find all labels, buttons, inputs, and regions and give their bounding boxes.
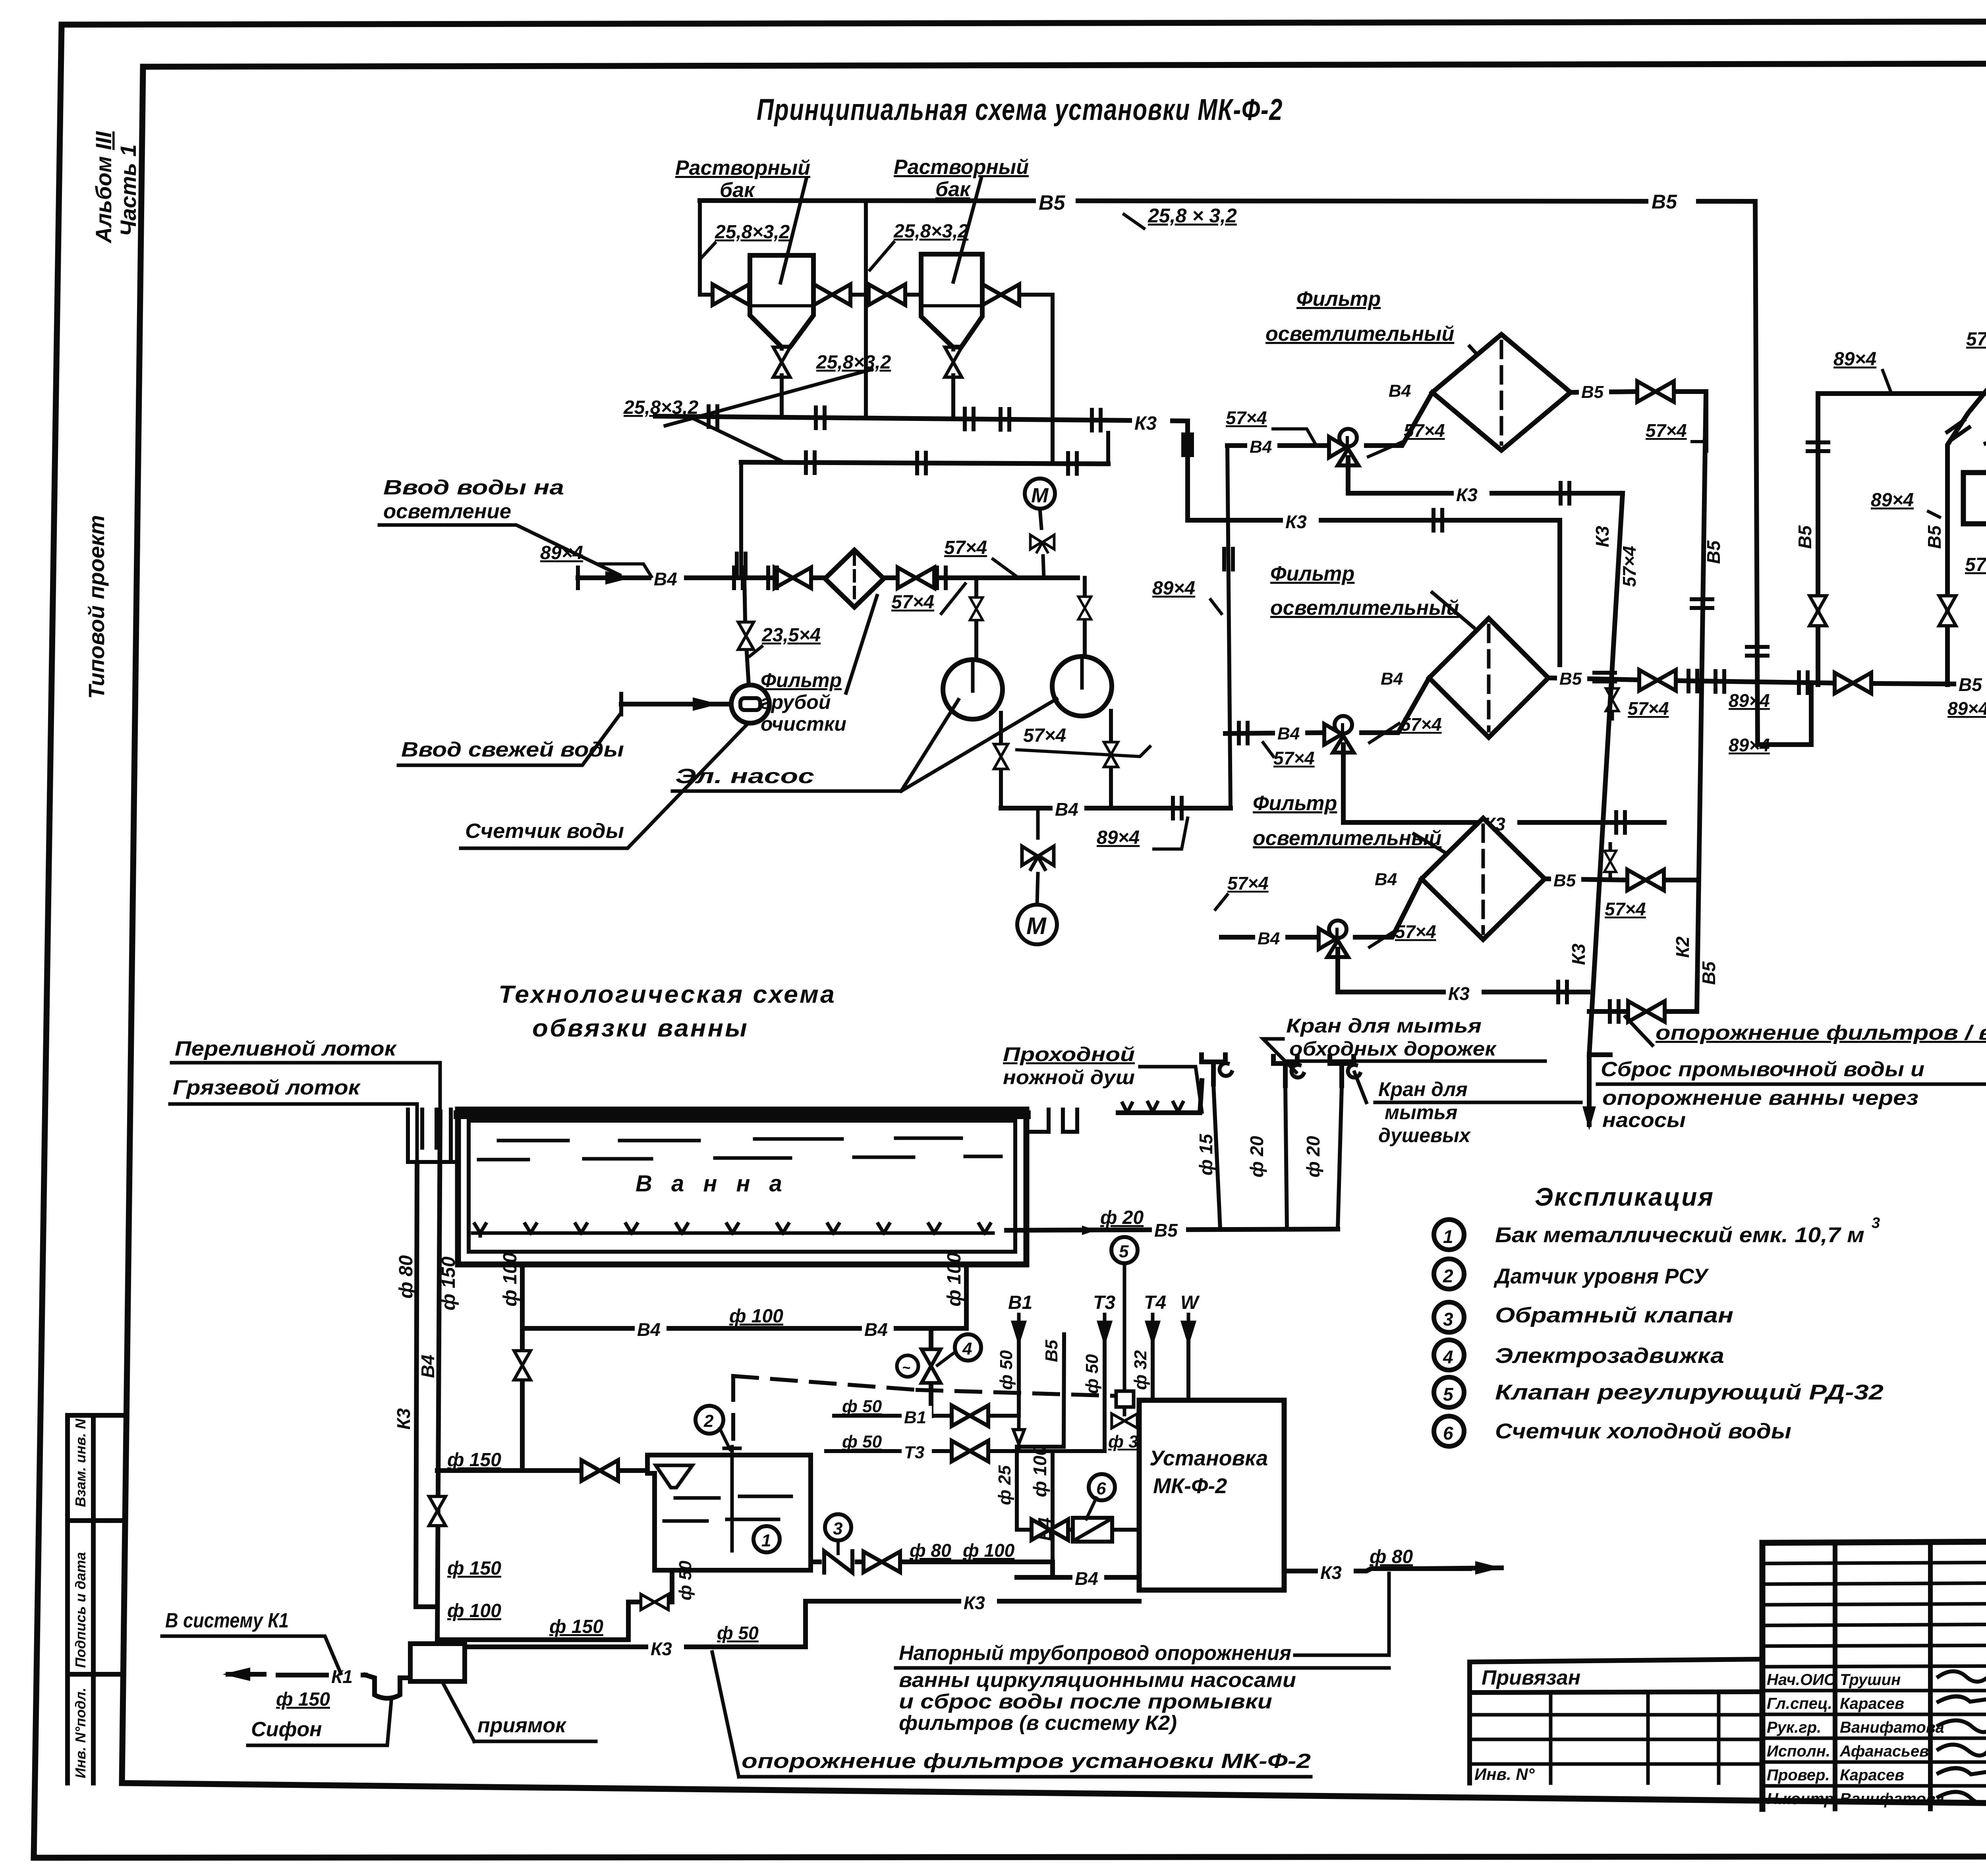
svg-text:ванны циркуляционными насоса: ванны циркуляционными насосами [899,1669,1296,1692]
item 4 circle [1434,1340,1464,1370]
svg-text:57×4: 57×4 [1273,748,1315,768]
svg-text:Нач.ОИО: Нач.ОИО [1767,1671,1836,1689]
svg-text:89×4: 89×4 [1729,735,1770,755]
title block small grid [1762,1562,1986,1667]
svg-text:Фильтр: Фильтр [1253,792,1337,815]
svg-text:ф 20: ф 20 [1246,1136,1267,1177]
svg-text:57×4: 57×4 [1227,873,1269,894]
svg-text:23,5×4: 23,5×4 [761,625,821,646]
T3 riser [1103,1340,1107,1451]
svg-text:Гл.спец.: Гл.спец. [1767,1695,1832,1712]
title block signature rows [1762,1691,1986,1786]
sensor box on stem [1116,1391,1134,1407]
phi15 riser [1213,1084,1220,1229]
right overflow trough [1026,1110,1077,1132]
svg-text:Ванифатова: Ванифатова [1840,1719,1944,1736]
svg-text:М: М [1031,484,1049,507]
svg-text:В5: В5 [1703,540,1724,564]
svg-text:К3: К3 [964,1592,985,1613]
svg-text:57×4: 57×4 [891,592,934,613]
svg-text:57×4: 57×4 [944,537,987,558]
wire tank2 right to riser [982,295,1053,462]
svg-text:В5: В5 [1581,382,1604,402]
svg-text:Сброс промывочной воды и: Сброс промывочной воды и [1601,1058,1924,1081]
svg-text:57×4: 57×4 [1966,329,1986,350]
motor M1 (upper) [1025,479,1055,509]
item 6 circle [1434,1416,1464,1446]
svg-text:89×4: 89×4 [1833,349,1876,370]
fresh water inlet stub with arrow [621,702,730,706]
B4 vertical from overflow trough [436,1112,440,1658]
collector K3 under tanks [655,416,1188,421]
label B4 on inlet line [651,567,684,587]
filter1 B5 outlet [1571,392,1706,450]
svg-text:ф 100: ф 100 [944,1253,965,1307]
svg-text:89×4: 89×4 [1729,690,1770,711]
K3 drain line to unit [455,1601,1139,1647]
svg-text:Взам. инв. N°: Взам. инв. N° [72,1413,89,1507]
svg-text:Фильтр: Фильтр [1270,562,1354,585]
svg-text:89×4: 89×4 [1097,827,1140,848]
dashed control line to MK unit [918,1390,1117,1396]
svg-text:В4: В4 [1277,724,1300,743]
svg-text:ф 150: ф 150 [447,1449,501,1471]
dashed control line to tank [733,1376,918,1390]
svg-text:ф 50: ф 50 [842,1397,882,1416]
svg-text:обвязки ванны: обвязки ванны [532,1015,749,1042]
valve right of coarse filter [898,567,934,588]
filter 2 diamond [1429,618,1548,737]
svg-text:В5: В5 [1039,191,1066,214]
K3 cross line from tank collector [1188,421,1560,671]
tank fill funnel [656,1465,692,1488]
svg-text:5: 5 [1443,1384,1454,1405]
svg-text:насосы: насосы [1602,1109,1686,1132]
svg-text:К3: К3 [1568,944,1589,965]
flanges on B5 output line [1688,671,1697,691]
svg-text:Т3: Т3 [1093,1292,1115,1313]
svg-text:ф 50: ф 50 [676,1560,695,1600]
svg-text:6: 6 [1443,1423,1453,1444]
svg-text:25,8×3,2: 25,8×3,2 [715,222,790,243]
svg-text:1: 1 [1443,1226,1453,1247]
electro valve motor circle [897,1355,918,1377]
valve on heater feed vertical [1810,596,1827,625]
pipe B5 top header line [700,201,1755,203]
svg-text:Эл. насос: Эл. насос [675,765,814,788]
slanted flange hatches above heater [1947,420,1969,439]
filter2 B5 outlet long line to output [1548,678,1986,685]
bath drain riser [520,1264,525,1471]
label 25,8x3,2 with leader on top line [1648,190,1696,210]
svg-text:Ввод воды на: Ввод воды на [383,476,564,499]
water level dashes row2 [479,1156,1001,1160]
svg-text:Исполн.: Исполн. [1767,1743,1830,1760]
svg-text:89×4: 89×4 [540,542,583,564]
svg-text:25,8×3,2: 25,8×3,2 [623,397,698,418]
filter1 B4 feed line [1227,392,1432,446]
svg-text:В систему К1: В систему К1 [165,1609,289,1632]
K3 outlet arrow segment [1422,1568,1501,1569]
privyazan grid [1470,1693,1762,1783]
wire tank1 left stem [700,201,750,295]
foot shower trough [1118,1081,1202,1113]
svg-text:Датчик уровня РСУ: Датчик уровня РСУ [1493,1264,1709,1288]
tank water level dashes [664,1496,791,1521]
svg-text:57×4: 57×4 [1628,698,1669,719]
svg-text:89×4: 89×4 [1947,698,1986,719]
svg-text:осветлительный: осветлительный [1253,827,1441,850]
svg-text:Ввод свежей воды: Ввод свежей воды [401,738,624,761]
svg-text:В5: В5 [1959,674,1982,695]
svg-text:бак: бак [720,179,755,202]
svg-text:Грязевой лоток: Грязевой лоток [173,1076,361,1099]
tank1 inlet valve left [713,284,749,305]
svg-text:осветление: осветление [383,500,511,523]
svg-text:Растворный: Растворный [675,156,810,179]
svg-text:6: 6 [1096,1479,1106,1498]
filter 3 diamond [1422,818,1545,940]
svg-text:осветлительный: осветлительный [1270,596,1459,620]
svg-text:Обратный клапан: Обратный клапан [1495,1303,1733,1327]
svg-text:М: М [1026,913,1047,939]
B1 riser [1017,1340,1021,1416]
tank outlet check valve (3) [811,1562,1053,1577]
svg-text:В4: В4 [1381,669,1403,689]
filter1 outlet valve [1637,381,1674,402]
svg-text:ф 100: ф 100 [729,1306,783,1327]
svg-text:В4: В4 [1250,437,1272,457]
water heater vessel [1963,473,1986,524]
svg-text:К3: К3 [651,1639,672,1659]
electro valve (4) riser [929,1328,933,1416]
svg-text:В5: В5 [1154,1220,1178,1241]
label B4 at filter1 corner [1386,379,1416,398]
svg-text:и сброс воды после промывк: и сброс воды после промывки [899,1690,1272,1713]
svg-text:2: 2 [703,1411,714,1431]
svg-text:В1: В1 [1008,1292,1032,1313]
svg-text:Н.контр.: Н.контр. [1767,1790,1838,1808]
svg-text:Провер.: Провер. [1767,1766,1830,1784]
svg-text:очистки: очистки [761,713,846,735]
solution tank 2 [921,254,982,347]
filter1 inlet 3-way valve [1329,429,1358,465]
arrow on B4 inlet [605,571,632,585]
svg-text:ф 50: ф 50 [1082,1354,1102,1394]
long K3 collector vertical [1589,493,1623,1055]
left sidebar boxes [68,1415,122,1783]
item 2 circle [1434,1259,1464,1289]
svg-text:грубой: грубой [761,691,831,713]
callout circle 5 regulator [1111,1237,1138,1263]
svg-text:Карасев: Карасев [1840,1695,1904,1712]
callout circle 2 [695,1406,723,1434]
svg-text:4: 4 [1443,1347,1453,1367]
svg-text:В5: В5 [1924,525,1945,549]
svg-text:Альбом III: Альбом III [91,131,116,244]
svg-text:4: 4 [962,1339,972,1359]
riser from collector2 to main B4 line [739,462,743,578]
svg-text:57×4: 57×4 [1646,420,1687,441]
pump collector B4 [1001,806,1231,811]
K1 arrow (to system) [228,1672,264,1677]
pump1 outlet with valve [999,713,1003,808]
svg-text:В5: В5 [1042,1339,1061,1362]
svg-text:ф 150: ф 150 [549,1616,603,1637]
svg-text:В4: В4 [1375,870,1397,889]
filter2 drain K3 line [1343,745,1664,822]
tap phi20 second [1330,1056,1360,1086]
callout circle 3 [825,1514,851,1540]
svg-text:ф 20: ф 20 [1100,1207,1144,1228]
shutoff valve above meter [738,622,754,650]
siphon [365,1675,410,1698]
svg-text:Карасев: Карасев [1840,1766,1904,1784]
svg-text:ф 150: ф 150 [447,1558,501,1579]
B5 riser to counter [1017,1334,1064,1530]
lower backwash valve row [1589,1009,1697,1014]
pump 1 feed drop [974,578,978,660]
svg-text:Счетчик воды: Счетчик воды [465,820,624,843]
svg-text:К3: К3 [1448,983,1470,1004]
callout circle 6 [1089,1474,1115,1500]
svg-text:57×4: 57×4 [1023,725,1066,746]
pump2 outlet with valve [1109,711,1113,808]
svg-text:89×4: 89×4 [1152,578,1195,599]
svg-text:ф 80: ф 80 [1370,1546,1413,1567]
svg-text:Привязан: Привязан [1482,1666,1580,1689]
svg-text:Переливной лоток: Переливной лоток [175,1037,397,1060]
heater feed vertical B5 [1816,394,1820,685]
tap phi15 [1202,1055,1232,1084]
tap phi20 first [1273,1056,1304,1086]
svg-text:Принципиальная схема установ: Принципиальная схема установки МК-Ф-2 [757,93,1283,127]
svg-text:В5: В5 [1652,191,1677,213]
svg-text:Счетчик холодной воды: Счетчик холодной воды [1495,1419,1791,1443]
svg-text:Инв. N°подл.: Инв. N°подл. [72,1688,89,1778]
svg-text:бак: бак [935,178,971,201]
bath B4 riser right [964,1264,969,1328]
regulator valve on T4 row [1112,1414,1137,1428]
K1 discharge line [278,1673,365,1677]
svg-text:осветлительный: осветлительный [1265,322,1454,345]
svg-text:ф 100: ф 100 [447,1600,501,1621]
svg-text:опорожнение фильтров / в прия: опорожнение фильтров / в приямок/ [1656,1021,1986,1044]
flange pair on B4 inlet [734,567,743,588]
svg-text:Установка: Установка [1149,1446,1268,1470]
wire tank1-right to mid riser [813,293,866,297]
leader from phi80 down to text [1295,1573,1389,1655]
level sensor rod [722,1447,742,1551]
svg-text:Типовой проект: Типовой проект [84,515,109,699]
svg-text:ф 80: ф 80 [910,1540,951,1561]
svg-text:В5: В5 [1559,669,1582,689]
long B5 backwash vertical [1697,392,1706,1011]
svg-text:мытья: мытья [1385,1101,1457,1123]
tank2 drain valve symbol [945,347,962,377]
filter3 B4 feed line [1221,879,1422,937]
T4 riser [1138,1340,1153,1421]
svg-text:57×4: 57×4 [1605,899,1646,919]
svg-text:опорожнение фильтров установ: опорожнение фильтров установки МК-Ф-2 [742,1750,1311,1773]
svg-text:Т3: Т3 [904,1443,924,1462]
T3 supply row with valve [826,1449,1105,1453]
svg-text:Ванифатова: Ванифатова [1840,1790,1944,1808]
svg-text:В4: В4 [864,1319,888,1340]
svg-text:Т4: Т4 [1144,1292,1166,1313]
counter (6) assembly row [1017,1528,1139,1532]
svg-text:Проходной: Проходной [1003,1043,1135,1065]
filter2 B4 feed line [1225,678,1429,733]
svg-text:Растворный: Растворный [894,156,1029,179]
collector 2 line [741,462,1108,464]
label B4 at filter3 corner [1372,868,1403,887]
B5 vertical from top header [1755,203,1811,745]
flanges on verticals [1594,673,1615,681]
regulator stem line [1123,1263,1126,1415]
coarse filter diamond [825,550,884,607]
branch down to water meter [744,578,749,685]
svg-text:57×4: 57×4 [1226,407,1267,428]
B4 main under bath [522,1326,966,1331]
svg-text:3: 3 [1872,1215,1880,1231]
svg-text:Трушин: Трушин [1840,1671,1901,1689]
svg-text:ножной душ: ножной душ [1003,1066,1135,1089]
K3 outlet from unit with phi80 [1284,1569,1470,1571]
svg-text:ф 150: ф 150 [276,1689,330,1710]
valve on B4 vertical [429,1496,446,1526]
svg-text:5: 5 [1119,1242,1129,1261]
second riser to bottom line [1947,391,1986,685]
svg-text:К3: К3 [1320,1562,1342,1583]
svg-text:Сифон: Сифон [251,1718,322,1741]
svg-text:В5: В5 [1698,961,1719,985]
motor M2 (lower) [1017,905,1057,944]
filter1 drain K3 line [1348,457,1623,493]
svg-text:3: 3 [833,1519,842,1538]
label B5 and 89x4 on output line [1956,673,1986,693]
svg-text:ф 150: ф 150 [438,1256,459,1310]
filter3 inlet 3-way valve [1319,921,1348,957]
svg-text:57×4: 57×4 [1395,921,1436,942]
heater top feed line 89x4 [1818,394,1986,473]
svg-text:ф 25: ф 25 [995,1465,1014,1505]
mid riser between tanks [864,201,868,416]
svg-text:МК-Ф-2: МК-Ф-2 [1153,1474,1227,1498]
tank drain ph50 drop [437,1571,672,1640]
svg-text:57×4: 57×4 [1965,554,1986,575]
svg-text:W: W [1180,1292,1200,1313]
svg-text:фильтров (в систему К2): фильтров (в систему К2) [899,1712,1177,1735]
riser to filter1 feed [1227,446,1231,808]
svg-text:обходных дорожек: обходных дорожек [1289,1038,1497,1060]
svg-text:К3: К3 [1134,413,1157,434]
svg-text:опорожнение ванны через: опорожнение ванны через [1602,1087,1918,1110]
svg-text:В4: В4 [1389,381,1411,401]
drain vertical lower arrow [1587,1055,1592,1125]
tank2 outlet valve right [983,284,1019,305]
svg-text:В4: В4 [1258,929,1280,948]
svg-text:Кран для: Кран для [1378,1078,1468,1100]
svg-text:89×4: 89×4 [1871,490,1914,511]
svg-text:Бак металлический емк. 10,7 м: Бак металлический емк. 10,7 м [1495,1223,1864,1247]
svg-text:ф 20: ф 20 [1303,1136,1323,1177]
jog collector2 right end up [1106,433,1110,464]
svg-text:ф 80: ф 80 [396,1255,417,1299]
callout circle 4 [955,1334,981,1361]
svg-text:Инв. N°: Инв. N° [1474,1765,1535,1783]
main B4 inlet line [578,575,1078,580]
svg-text:В5: В5 [1553,871,1576,890]
item 1 circle [1434,1220,1464,1250]
backwash drop valve [1611,680,1614,719]
svg-text:К3: К3 [1285,511,1307,532]
pump 1 circle [943,660,1003,719]
phi20 riser 1 [1285,1086,1287,1229]
svg-text:В1: В1 [904,1408,926,1427]
svg-text:К3: К3 [393,1408,414,1430]
tank2 inlet valve left [869,284,905,305]
B5 feed line to bath [1007,1229,1338,1230]
filter3 B5 outlet [1545,879,1697,880]
B4 riser to tank outlet row [1051,1451,1055,1562]
svg-text:~: ~ [902,1359,910,1376]
valve after check [864,1552,900,1572]
label B4 at filter2 corner [1378,667,1408,686]
title block outer [1762,1539,1986,1809]
B4 feed into unit [1017,1575,1139,1580]
bath outer shell [458,1110,1026,1264]
svg-text:душевых: душевых [1378,1124,1471,1146]
svg-text:В4: В4 [1075,1568,1098,1589]
filter2 outlet valve [1639,670,1676,691]
svg-text:ф 50: ф 50 [717,1623,759,1643]
small valve above filter3 outlet [1609,844,1612,880]
svg-text:ф 100: ф 100 [963,1540,1015,1561]
svg-text:В4: В4 [1055,799,1078,820]
svg-text:2: 2 [1443,1266,1453,1286]
svg-text:Фильтр: Фильтр [1296,288,1381,311]
svg-text:Клапан регулирующий РД-32: Клапан регулирующий РД-32 [1495,1380,1884,1404]
tank1 drain valve [773,347,790,377]
svg-text:ф 32: ф 32 [1131,1350,1150,1390]
svg-text:Экспликация: Экспликация [1535,1183,1714,1211]
svg-text:Кран для мытья: Кран для мытья [1286,1015,1482,1037]
svg-text:К3: К3 [1456,484,1478,505]
svg-text:ф 50: ф 50 [842,1432,882,1451]
svg-text:В4: В4 [417,1355,438,1378]
label B5 on top line [1036,189,1076,212]
svg-text:Фильтр: Фильтр [761,669,842,691]
svg-text:ф 100: ф 100 [500,1253,521,1307]
filter 1 diamond [1432,334,1571,450]
svg-text:Рук.гр.: Рук.гр. [1767,1719,1821,1736]
solution tank 1 [750,255,813,347]
svg-text:В4: В4 [637,1319,661,1340]
svg-text:К1: К1 [331,1666,353,1687]
svg-text:К2: К2 [1672,936,1693,958]
svg-text:В а н н а: В а н н а [636,1171,788,1197]
phi150 supply line to tank [437,1468,647,1473]
K3 vertical from dirt trough [416,1164,437,1607]
B1 supply row with valve [834,1414,1019,1418]
filter3 outlet valve [1627,870,1664,890]
pump 2 feed drop [1083,578,1087,657]
water level dashes row1 [498,1138,961,1141]
tank1 outlet valve right [814,284,850,305]
Ustanovka MK-F-2 box [1139,1400,1284,1590]
svg-text:25,8 × 3,2: 25,8 × 3,2 [1148,205,1237,227]
